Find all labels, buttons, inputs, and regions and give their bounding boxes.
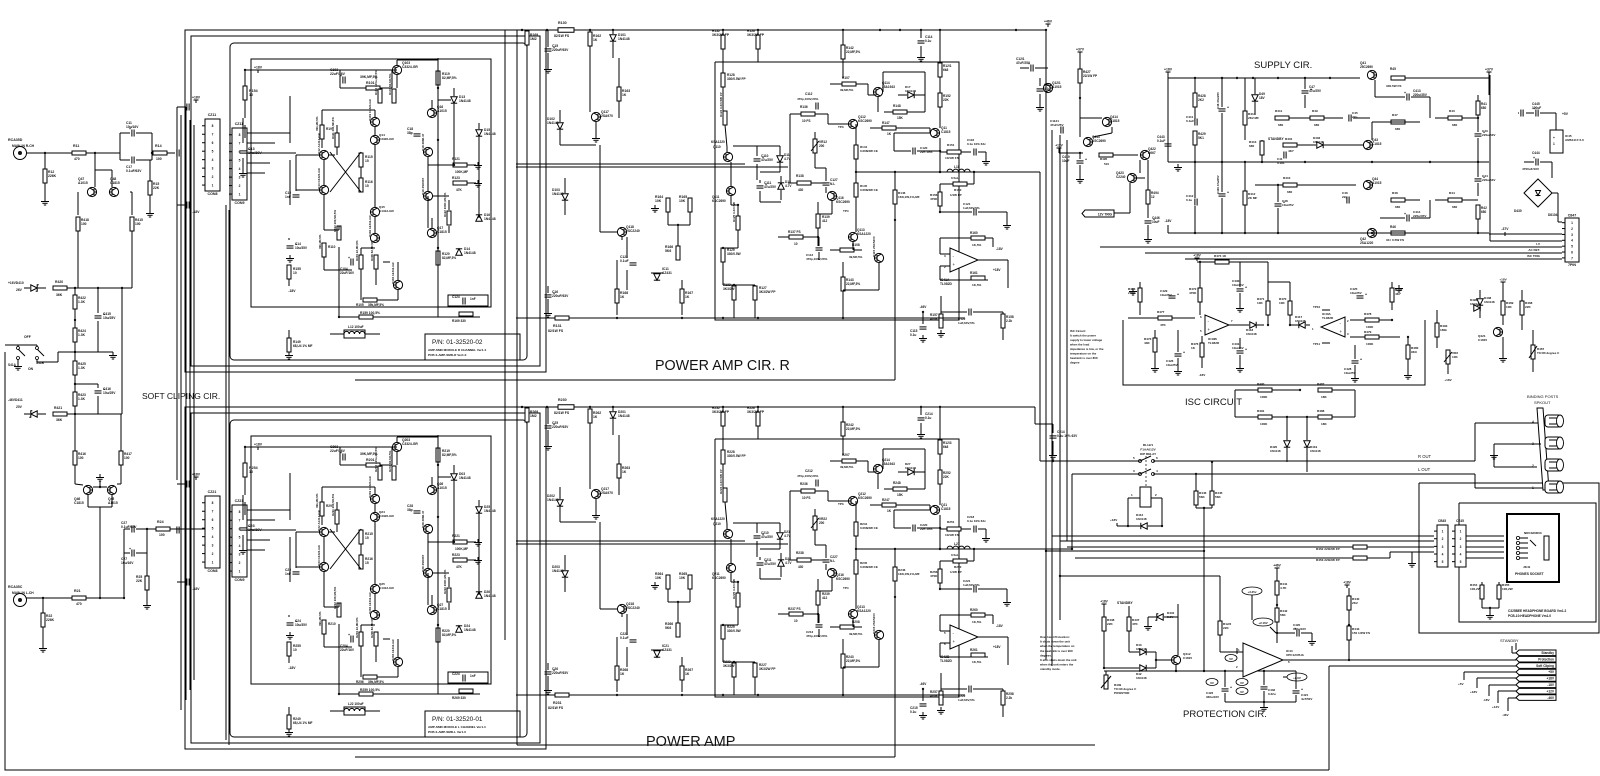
capacitor C422 [1222, 688, 1229, 690]
svg-text:MAIN-IN L-CH: MAIN-IN L-CH [12, 591, 34, 595]
oval 0V b [1236, 679, 1248, 686]
diode D420 [1284, 441, 1290, 447]
svg-text:MAIN-IN R-CH: MAIN-IN R-CH [12, 144, 35, 148]
svg-text:Q215 2SC5200: Q215 2SC5200 [872, 613, 876, 634]
resistor R415 [130, 217, 134, 231]
svg-text:18K: 18K [1321, 422, 1327, 426]
capacitor C47 [1302, 90, 1309, 92]
pot VR3 [1446, 350, 1450, 364]
capacitor C17 [131, 157, 133, 164]
svg-text:1N4148: 1N4148 [547, 498, 559, 502]
resistor R163 [617, 87, 621, 101]
resistor R401 [1283, 143, 1297, 147]
svg-text:1: 1 [212, 183, 214, 187]
svg-text:1nF: 1nF [470, 297, 476, 301]
svg-text:0.068/3W CE: 0.068/3W CE [860, 188, 878, 192]
resistor R473 [1153, 338, 1157, 352]
wire lower out to relay [915, 548, 1072, 550]
svg-text:680: 680 [1481, 210, 1487, 214]
capacitor C22 [293, 571, 300, 573]
transistor Q111 [726, 186, 735, 195]
resistor R14 [153, 151, 167, 155]
svg-text:470: 470 [74, 157, 80, 161]
resistor R482 [1390, 288, 1394, 302]
resistor R130 [558, 28, 574, 33]
svg-text:F1AA012V: F1AA012V [1140, 448, 1156, 452]
diode D24 [456, 626, 462, 632]
transistor Q114 [873, 87, 882, 96]
diode D23 [451, 474, 457, 480]
svg-text:1M2: 1M2 [530, 37, 537, 41]
svg-text:+: + [1177, 293, 1179, 297]
svg-text:KSC2690: KSC2690 [836, 200, 850, 204]
svg-text:1: 1 [239, 192, 241, 196]
module wires R [245, 69, 340, 71]
svg-text:R250: R250 [954, 565, 962, 569]
svg-text:1N4148: 1N4148 [459, 476, 471, 480]
zener D410 [31, 285, 37, 291]
svg-text:+18V: +18V [1100, 600, 1108, 604]
svg-text:R238: R238 [796, 551, 804, 555]
resistor R242 [841, 422, 845, 436]
resistor R454 [1480, 585, 1484, 599]
svg-text:0.068/3W CE: 0.068/3W CE [860, 565, 878, 569]
transistor Q113o [848, 232, 857, 241]
svg-text:NRC326D03: NRC326D03 [1524, 531, 1542, 535]
svg-text:C212: C212 [805, 469, 813, 473]
ground C23 [242, 547, 244, 551]
ground R483 [1132, 288, 1134, 292]
svg-text:PCB:4-AMP-SMD-R Ver1.0: PCB:4-AMP-SMD-R Ver1.0 [428, 353, 467, 357]
diode D202 [557, 500, 563, 506]
svg-text:330.5W FS: 330.5W FS [1386, 84, 1401, 88]
resistor R124 [723, 111, 727, 125]
transistor Q11o R [930, 128, 939, 137]
svg-text:+: + [1245, 286, 1247, 290]
resistor R243 [841, 654, 845, 668]
svg-text:POSISTOR: POSISTOR [1114, 691, 1130, 695]
svg-text:10K: 10K [1257, 301, 1263, 305]
svg-text:4: 4 [1460, 552, 1462, 556]
svg-text:+5V: +5V [1562, 112, 1569, 116]
svg-text:220u/63V: 220u/63V [1482, 133, 1496, 137]
capacitor C114 [1037, 88, 1044, 90]
svg-text:5K6: 5K6 [665, 249, 671, 253]
resistor R165 [688, 198, 692, 212]
svg-text:15: 15 [365, 561, 369, 565]
svg-text:3K3/2W FP: 3K3/2W FP [712, 33, 730, 37]
svg-text:when the unit enters the: when the unit enters the [1039, 663, 1074, 667]
wire relay left L [1072, 473, 1140, 475]
svg-text:10u/35V: 10u/35V [295, 246, 308, 250]
svg-text:680: 680 [1481, 106, 1487, 110]
svg-text:0.1uF: 0.1uF [1157, 139, 1165, 143]
resistor R142 [841, 45, 845, 59]
svg-text:1uF,63V,5%: 1uF,63V,5% [963, 206, 980, 210]
svg-text:R111 100,MF,5%: R111 100,MF,5% [331, 117, 335, 139]
svg-text:+18V: +18V [254, 443, 263, 447]
resistor R104 [359, 255, 363, 269]
svg-text:R224 3.3/0.5W FP: R224 3.3/0.5W FP [719, 469, 723, 494]
cross wires L [330, 529, 361, 569]
svg-text:+18V: +18V [1193, 254, 1201, 258]
op-amp IC43B [1205, 315, 1229, 335]
svg-text:412: 412 [822, 596, 828, 600]
svg-text:10u/16V: 10u/16V [126, 125, 139, 129]
svg-text:R112 100,MF,5%: R112 100,MF,5% [333, 210, 337, 232]
diode D103 [562, 194, 568, 200]
ground C114t [920, 54, 922, 58]
svg-text:2.2k: 2.2k [1006, 319, 1012, 323]
svg-text:1N4148: 1N4148 [484, 132, 496, 136]
svg-text:-18V: -18V [288, 289, 296, 293]
svg-text:+18V: +18V [993, 645, 1001, 649]
svg-text:-18V: -18V [1165, 219, 1173, 223]
svg-text:5K6: 5K6 [665, 626, 671, 630]
resistor R155 [287, 265, 291, 279]
svg-text:-18V: -18V [1199, 373, 1206, 377]
svg-text:22K: 22K [943, 475, 950, 479]
capacitor C120 [912, 148, 914, 155]
svg-text:-18V: -18V [1547, 683, 1555, 687]
resistor R203 [392, 466, 396, 480]
ground C420 [1311, 638, 1313, 642]
resistor R111 [335, 133, 339, 147]
wire rail upper top [700, 29, 1046, 31]
svg-text:82/1W FS: 82/1W FS [554, 34, 570, 38]
diode D102 [557, 123, 563, 129]
transistor Q204 [393, 657, 402, 666]
svg-text:22,MF,5%: 22,MF,5% [846, 282, 860, 286]
svg-text:A1015: A1015 [108, 501, 118, 505]
svg-text:3: 3 [212, 167, 214, 171]
svg-text:330/0.5W: 330/0.5W [727, 629, 741, 633]
ground R480 [1407, 372, 1409, 376]
svg-text:10u/25V: 10u/25V [103, 391, 116, 395]
svg-text:TL082D: TL082D [1208, 341, 1220, 345]
cap at conn left R [176, 150, 178, 157]
resistor R127 [753, 286, 757, 300]
svg-text:1: 1 [1532, 486, 1534, 490]
svg-text:BINDING POSTS: BINDING POSTS [1527, 394, 1559, 399]
capacitor C26 [545, 671, 552, 673]
output big box R [715, 62, 959, 320]
resistor R139 [816, 214, 820, 228]
resistor R126 [756, 35, 760, 49]
svg-text:0.1uF: 0.1uF [1186, 119, 1194, 123]
resistor R25 [145, 576, 149, 590]
resistor R269b [525, 408, 529, 422]
resistor R248 [893, 487, 907, 491]
capacitor C203 [342, 454, 344, 461]
capacitor C118 [973, 149, 975, 156]
svg-text:10uF: 10uF [1062, 159, 1069, 163]
svg-text:impedance is low, or the: impedance is low, or the [1070, 347, 1104, 351]
svg-text:R211 100,MF,5%: R211 100,MF,5% [331, 494, 335, 516]
svg-text:+46V: +46V [1273, 564, 1281, 568]
wires Q47 Q48 [94, 153, 96, 170]
svg-text:3: 3 [1442, 545, 1444, 549]
feedback line upper [355, 379, 895, 381]
resistor R106 [374, 255, 378, 269]
svg-text:-37V: -37V [1501, 227, 1509, 231]
svg-text:C1815: C1815 [110, 181, 120, 185]
svg-text:100,2W: 100,2W [1502, 587, 1513, 591]
svg-text:STANDBY: STANDBY [1268, 137, 1284, 141]
svg-text:Q23 C3324-GR: Q23 C3324-GR [317, 544, 321, 566]
svg-text:R49: R49 [1312, 109, 1318, 113]
svg-text:22uF/16V: 22uF/16V [330, 449, 346, 453]
transistor Q44 [1363, 180, 1372, 189]
svg-text:degree: degree [1070, 361, 1080, 365]
svg-text:R11: R11 [73, 144, 79, 148]
ground C121 [1006, 222, 1008, 226]
resistor R210 [322, 620, 326, 634]
svg-text:2: 2 [212, 175, 214, 179]
svg-text:0.1u: 0.1u [910, 710, 916, 714]
module inner box R [251, 59, 491, 307]
svg-text:A1312-GR: A1312-GR [379, 586, 395, 590]
capacitor C110 [754, 158, 761, 160]
ground R157 [940, 330, 942, 334]
resistor R265 [688, 575, 692, 589]
op-amp IC41A [950, 248, 978, 272]
phones socket box [1507, 514, 1559, 582]
svg-text:2K MF: 2K MF [1248, 196, 1257, 200]
resistor R168 [615, 289, 619, 303]
svg-text:+: + [1553, 136, 1555, 140]
conn bus x190 [189, 120, 191, 690]
transistor Q14c [370, 135, 379, 144]
svg-text:10 FS: 10 FS [802, 119, 811, 123]
resistor R245 [854, 560, 858, 574]
svg-text:CZ11: CZ11 [208, 113, 217, 117]
svg-text:R161: R161 [970, 271, 978, 275]
svg-text:100K,MF: 100K,MF [455, 547, 468, 551]
svg-text:0.1uF: 0.1uF [620, 259, 629, 263]
svg-text:+: + [1227, 191, 1229, 195]
ground R249 [288, 729, 290, 733]
svg-text:22,MF,5%: 22,MF,5% [846, 427, 860, 431]
resistor R252 [938, 470, 942, 484]
svg-text:TP3: TP3 [838, 125, 844, 129]
svg-text:4: 4 [212, 158, 214, 162]
resistor R453l [1353, 556, 1367, 560]
binding bar [1537, 408, 1549, 490]
svg-text:R124 3.3/0.5W FP: R124 3.3/0.5W FP [719, 92, 723, 117]
module wires L [245, 446, 340, 448]
svg-text:1N4148: 1N4148 [1270, 449, 1281, 453]
resistor R264 [666, 575, 670, 589]
svg-text:L12 100uF: L12 100uF [348, 325, 364, 329]
diode D438 [1477, 299, 1483, 305]
svg-text:-18V: -18V [996, 624, 1004, 628]
svg-text:CZ21: CZ21 [235, 499, 244, 503]
wire sense row 551 [1046, 550, 1204, 552]
resistor R443 [1347, 626, 1351, 640]
resistor R428 [1193, 93, 1197, 107]
ground chain mid [75, 351, 113, 353]
binding post 1 [1545, 481, 1561, 493]
transistor Q41 [1367, 70, 1376, 79]
resistor R161 [971, 276, 985, 280]
svg-text:6: 6 [212, 141, 214, 145]
ground R123 [477, 180, 479, 184]
svg-text:R110: R110 [328, 245, 336, 249]
svg-text:68,U4 1% MF: 68,U4 1% MF [293, 344, 313, 348]
flag +18V prot [1102, 603, 1107, 605]
resistor R438 [1102, 617, 1106, 631]
flag +46V prot [1275, 567, 1280, 569]
svg-text:SOFT CLIPING CIR.: SOFT CLIPING CIR. [142, 391, 220, 401]
svg-text:100,2W: 100,2W [1470, 587, 1481, 591]
wire supply left rail [1167, 78, 1169, 162]
capacitor C104 [350, 259, 352, 266]
bus bundle x1052 [1051, 130, 1053, 666]
transistor Q24c [370, 512, 379, 521]
svg-text:R410: R410 [1283, 176, 1291, 180]
resistor R246 [893, 567, 897, 581]
svg-text:1K,5%: 1K,5% [972, 243, 982, 247]
capacitor C213c [816, 624, 823, 626]
capacitor C48 [1275, 203, 1282, 205]
svg-text:R103 82,MF,5%: R103 82,MF,5% [388, 73, 392, 95]
relay coil [1140, 487, 1151, 507]
svg-text:C124: C124 [452, 295, 460, 299]
svg-text:10K: 10K [679, 576, 686, 580]
resistor R414 [1243, 111, 1247, 125]
IC11 AZ431 [654, 274, 660, 280]
svg-text:+: + [129, 547, 131, 551]
svg-text:the heatsink is over 90C: the heatsink is over 90C [1040, 649, 1074, 653]
diode D27d [908, 469, 914, 475]
svg-text:KSC2690: KSC2690 [1092, 139, 1106, 143]
midcol wires R [546, 29, 558, 31]
resistor R267 [680, 666, 684, 680]
svg-text:-18V: -18V [1483, 698, 1490, 702]
resistor R236 [801, 489, 815, 493]
svg-text:ISC Circuit:: ISC Circuit: [1070, 329, 1086, 333]
svg-text:10: 10 [293, 271, 297, 275]
wire Rout to posts [1474, 423, 1476, 461]
flag +18V d428 [1501, 281, 1506, 283]
svg-text:R204 22,MF,5%: R204 22,MF,5% [355, 617, 359, 638]
svg-text:R43: R43 [1449, 109, 1455, 113]
resistor R136 [801, 112, 815, 116]
transistor Q15d [370, 207, 379, 216]
svg-text:5K1: 5K1 [1198, 136, 1204, 140]
svg-text:CON9: CON9 [235, 578, 245, 582]
resistor R129 [721, 248, 725, 262]
wire RCA35C [26, 597, 72, 599]
svg-text:1K8,1W,1%,MF: 1K8,1W,1%,MF [898, 572, 920, 576]
transistor Q47 [87, 187, 96, 196]
svg-text:56K: 56K [1215, 495, 1221, 499]
svg-text:430: 430 [798, 188, 804, 192]
transistor Q12b [319, 150, 328, 159]
capacitor C426 [1175, 353, 1182, 355]
svg-text:10uF: 10uF [1152, 220, 1159, 224]
capacitor C413 [1406, 94, 1408, 101]
svg-text:2SC2240: 2SC2240 [626, 606, 640, 610]
resistor R47 [1391, 120, 1405, 124]
svg-text:1K: 1K [620, 672, 625, 676]
svg-text:1N4148: 1N4148 [1295, 319, 1306, 323]
svg-text:R452 220/2W FP: R452 220/2W FP [1316, 547, 1340, 551]
svg-text:1N414B: 1N414B [905, 89, 917, 93]
resistor R441 [1275, 581, 1279, 595]
svg-text:+18V: +18V [192, 96, 201, 100]
svg-text:KSA1220: KSA1220 [857, 232, 871, 236]
resistor R250 [953, 559, 967, 563]
diode D101 [610, 35, 616, 41]
svg-text:1N4148: 1N4148 [552, 569, 564, 573]
svg-text:+18V: +18V [1110, 518, 1118, 522]
svg-text:1N4148: 1N4148 [484, 509, 496, 513]
svg-text:KSC2690: KSC2690 [712, 576, 726, 580]
capacitor C127 [823, 182, 830, 184]
svg-text:10u/25V: 10u/25V [1232, 283, 1245, 287]
svg-text:0.1u 10% 63v: 0.1u 10% 63v [967, 519, 986, 523]
svg-text:-18V: -18V [996, 247, 1004, 251]
svg-text:C1815: C1815 [1110, 119, 1120, 123]
svg-text:25A1943: 25A1943 [882, 85, 895, 89]
module board box L [230, 420, 527, 737]
svg-text:10: 10 [293, 648, 297, 652]
IC21 AZ431 [654, 651, 660, 657]
svg-text:AMP-SMD MODULE R CHANNEL Ver1: AMP-SMD MODULE R CHANNEL Ver1.4 [428, 348, 486, 352]
svg-text:Q102 A1312-GR: Q102 A1312-GR [368, 215, 372, 237]
transistor Q421 [1493, 327, 1502, 336]
svg-text:6k8: 6k8 [943, 68, 949, 72]
capacitor C227 [823, 559, 830, 561]
inductor L21 [947, 546, 953, 549]
svg-text:C444: C444 [1532, 151, 1540, 155]
resistor R257 [939, 691, 943, 705]
svg-text:1N4148: 1N4148 [1484, 300, 1495, 304]
svg-text:CB45: CB45 [1438, 519, 1446, 523]
resistor R169 [459, 312, 473, 316]
resistor R41 [1476, 101, 1480, 115]
resistor R494 [1146, 190, 1150, 204]
svg-text:+: + [1227, 106, 1229, 110]
svg-text:C1815: C1815 [941, 130, 951, 134]
svg-text:1N4148: 1N4148 [464, 628, 476, 632]
ground R64 L [654, 582, 656, 586]
resistor R12/2 [1218, 621, 1222, 635]
svg-text:2K2: 2K2 [1352, 601, 1358, 605]
resistor R251 [947, 527, 961, 531]
ground R12 [44, 198, 46, 202]
svg-text:39k,MF,5%: 39k,MF,5% [315, 493, 319, 508]
capacitor C16 [545, 294, 552, 296]
svg-text:100: 100 [81, 222, 87, 226]
cap at conn left L [176, 527, 178, 534]
svg-text:1/1W FP: 1/1W FP [950, 570, 962, 574]
resistor R230 [558, 405, 574, 410]
isc box [1123, 320, 1425, 385]
svg-text:330/0.5W FP: 330/0.5W FP [727, 454, 746, 458]
resistor R493 [1435, 323, 1439, 337]
svg-text:R106 82,MF,5%: R106 82,MF,5% [370, 240, 374, 261]
transistor Q42 [1367, 228, 1376, 237]
svg-text:C1815: C1815 [1183, 656, 1192, 660]
svg-text:1N4148: 1N4148 [1246, 332, 1257, 336]
svg-text:N.L: N.L [830, 559, 835, 563]
svg-text:1: 1 [1460, 530, 1462, 534]
flag +12V [1057, 147, 1062, 149]
ground C430 [1239, 305, 1241, 309]
